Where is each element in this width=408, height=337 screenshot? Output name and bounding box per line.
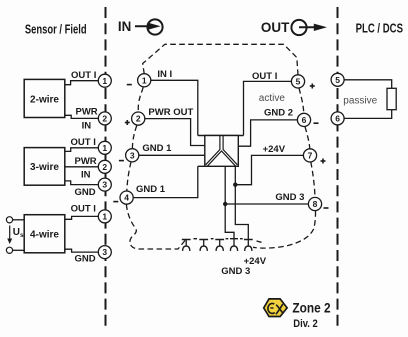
svg-text:5: 5: [296, 77, 301, 87]
wire GND 2: terminal 6 to isolator right: [238, 120, 297, 146]
device boundary dashed between terminals 3-4: [127, 162, 131, 191]
svg-text:GND: GND: [75, 254, 96, 265]
wire IN I: terminal 1 to isolator top left: [151, 80, 198, 135]
label GND 1 (terminal 4): [136, 184, 166, 195]
svg-text:4-wire: 4-wire: [30, 230, 59, 241]
minus sign terminal 6: [314, 122, 319, 124]
svg-text:3: 3: [130, 150, 135, 160]
2-wire sensor box: [24, 79, 65, 117]
svg-text:IN I: IN I: [157, 69, 172, 80]
svg-text:7: 7: [308, 151, 313, 161]
wire 3-wire GND to terminal 3: [65, 181, 98, 185]
wire PLC terminal 6 to load resistor: [344, 110, 392, 119]
svg-text:IN: IN: [81, 169, 91, 180]
wire 3-wire OUT I to terminal 1: [65, 148, 98, 152]
wire isolator bottom to bus contact 5 (+24V): [235, 166, 248, 239]
plus sign terminal 7: [321, 159, 326, 164]
bus connector contact 2: [199, 240, 208, 251]
isolator U1 bottom rail: [198, 165, 239, 167]
svg-text:1: 1: [102, 76, 107, 86]
svg-text:OUT I: OUT I: [71, 70, 96, 81]
label +24V (terminal 7): [263, 144, 286, 155]
isolator U1 body: [205, 136, 239, 167]
wire GND 1: terminal 3 to isolator left: [139, 154, 205, 156]
svg-text:OUT I: OUT I: [71, 137, 96, 148]
device boundary dashed between terminals 6-7: [305, 127, 310, 149]
PLC-side boundary dashed line: [337, 7, 339, 330]
label active: [259, 93, 286, 104]
middle terminal 3 (GND 1): [126, 149, 139, 162]
label PWR (2-wire): [76, 106, 98, 117]
svg-text:GND 2: GND 2: [264, 107, 293, 118]
4-wire sensor box: [24, 215, 65, 253]
minus sign terminal 8: [324, 207, 329, 209]
middle terminal 5 (OUT I): [291, 75, 304, 88]
svg-text:IN: IN: [82, 120, 92, 131]
wire 2-wire OUT I to terminal 1: [65, 81, 99, 85]
svg-text:GND: GND: [75, 187, 96, 198]
device boundary dashed between terminals 7-8: [311, 162, 315, 197]
middle terminal 1 (IN I): [138, 74, 151, 87]
bus connector contact 4 (GND 3): [230, 239, 238, 251]
middle terminal 8 (GND 3): [308, 197, 321, 210]
svg-text:8: 8: [313, 199, 318, 209]
svg-text:3: 3: [102, 180, 107, 190]
svg-text:Sensor / Field: Sensor / Field: [25, 23, 87, 37]
device boundary dashed from terminal 4 to bus connector row: [126, 204, 185, 249]
svg-text:OUT I: OUT I: [71, 204, 96, 215]
svg-text:5: 5: [335, 75, 340, 85]
label Div. 2: [293, 318, 318, 330]
supply source Us terminals: [6, 217, 24, 254]
svg-text:2: 2: [136, 114, 141, 124]
svg-text:1: 1: [142, 75, 147, 85]
IN port symbol: [118, 18, 163, 35]
wire 3-wire PWR IN to terminal 2: [65, 166, 98, 168]
3-wire sensor box: [24, 148, 65, 186]
svg-text:OUT I: OUT I: [252, 71, 277, 82]
svg-text:6: 6: [335, 114, 340, 124]
label GND 3 (terminal 8): [275, 192, 304, 203]
terminal circle 2 (2-wire PWR IN): [98, 112, 111, 125]
middle terminal 6 (GND 2): [297, 113, 310, 126]
plus sign terminal 5: [310, 84, 315, 89]
svg-text:PWR: PWR: [75, 156, 97, 167]
device boundary dashed outline top: [143, 44, 298, 75]
middle terminal 2 (PWR OUT): [132, 112, 145, 125]
svg-text:6: 6: [302, 115, 307, 125]
label IN I: [157, 69, 172, 80]
minus sign terminal 4: [113, 201, 118, 203]
label PWR (3-wire): [75, 156, 97, 167]
label GND (3-wire): [75, 187, 96, 198]
svg-text:GND 3: GND 3: [221, 266, 250, 277]
label passive: [343, 95, 377, 106]
label GND 1 (terminal 3): [142, 143, 172, 154]
bus connector contact 3: [215, 240, 224, 251]
label Zone 2: [292, 300, 330, 315]
svg-text:passive: passive: [343, 95, 377, 106]
isolator U1 top rail: [198, 135, 244, 137]
wire GND 3: terminal 8 to junction: [225, 203, 308, 205]
label OUT I (2-wire): [71, 70, 96, 81]
svg-text:GND 1: GND 1: [136, 184, 166, 195]
terminal circle 1 (2-wire OUT I): [98, 74, 111, 87]
wire GND 1: terminal 4 to isolator bottom left: [133, 166, 198, 197]
svg-text:PWR: PWR: [76, 106, 98, 117]
svg-text:2-wire: 2-wire: [30, 94, 59, 105]
svg-text:2: 2: [102, 162, 107, 172]
label OUT I (terminal 5): [252, 71, 277, 82]
device boundary dashed between terminals 2-3: [132, 126, 136, 149]
terminal circle 3 (3-wire GND): [98, 178, 111, 191]
wire 2-wire PWR IN to terminal 2: [65, 115, 99, 118]
label GND 2: [264, 107, 293, 118]
label OUT I (3-wire): [71, 137, 96, 148]
svg-text:IN: IN: [118, 18, 131, 34]
wire PWR OUT: terminal 2 to isolator left: [145, 119, 205, 146]
svg-text:3-wire: 3-wire: [30, 162, 59, 173]
svg-text:GND 1: GND 1: [142, 143, 172, 154]
load resistor (passive input): [387, 88, 396, 109]
wire 4-wire OUT I to terminal 1: [65, 216, 98, 219]
svg-text:+24V: +24V: [263, 144, 286, 155]
label Us: [13, 227, 24, 239]
bus connector contact 1: [182, 240, 191, 251]
wire PLC terminal 5 to load resistor: [344, 80, 392, 89]
svg-text:Div. 2: Div. 2: [293, 318, 318, 330]
wire OUT I: terminal 5 to isolator top right: [244, 81, 292, 135]
bus dashed segments between contacts: [194, 239, 262, 243]
Us voltage arrow: [7, 226, 12, 245]
svg-text:GND 3: GND 3: [275, 192, 304, 203]
label +24V (bus): [244, 256, 267, 267]
terminal circle 2 (3-wire PWR IN): [98, 160, 111, 173]
svg-text:4: 4: [124, 193, 129, 203]
label PLC / DCS: [356, 21, 403, 35]
svg-text:1: 1: [102, 143, 107, 153]
plus sign terminal 2: [125, 120, 130, 125]
PLC terminal 5: [331, 73, 344, 86]
label GND 3 (bus): [221, 266, 250, 277]
device boundary dashed between terminals 1-2: [138, 87, 143, 112]
svg-text:U: U: [13, 227, 20, 238]
label Sensor / Field: [25, 23, 87, 37]
wire 4-wire GND to terminal 3: [65, 249, 98, 252]
svg-text:1: 1: [102, 212, 107, 222]
label IN (3-wire): [81, 169, 91, 180]
OUT port symbol: [261, 19, 327, 35]
middle terminal 7 (+24V): [303, 149, 316, 162]
field-side boundary dashed line: [105, 7, 107, 330]
wire +24V: terminal 7 to junction: [235, 155, 303, 184]
svg-text:3: 3: [102, 247, 107, 257]
svg-text:2: 2: [102, 114, 107, 124]
device boundary dashed from terminal 8 to bus connector row: [253, 211, 316, 248]
junction +24V: [233, 183, 237, 187]
device boundary dashed between terminals 5-6: [299, 88, 304, 113]
minus sign terminal 3: [119, 160, 124, 162]
svg-text:OUT: OUT: [261, 19, 290, 35]
label IN (2-wire): [82, 120, 92, 131]
wire isolator bottom to bus contact 4 (GND 3): [225, 166, 234, 239]
terminal circle 1 (4-wire OUT I): [98, 210, 111, 223]
label GND (4-wire): [75, 254, 96, 265]
svg-text:s: s: [20, 232, 24, 239]
svg-text:PWR OUT: PWR OUT: [148, 107, 193, 118]
svg-text:active: active: [259, 93, 286, 104]
label OUT I (4-wire): [71, 204, 96, 215]
bus connector contact 5 (+24V): [244, 240, 253, 251]
terminal circle 1 (3-wire OUT I): [98, 141, 111, 154]
label PWR OUT: [148, 107, 193, 118]
svg-text:PLC / DCS: PLC / DCS: [356, 21, 403, 35]
Ex hexagon symbol: [264, 299, 287, 317]
PLC terminal 6: [331, 112, 344, 125]
middle terminal 4 (GND 1): [120, 191, 133, 204]
junction GND 3: [223, 202, 227, 206]
svg-text:Zone 2: Zone 2: [292, 300, 330, 315]
terminal circle 3 (4-wire GND): [98, 246, 111, 259]
minus sign terminal 1: [127, 84, 132, 86]
